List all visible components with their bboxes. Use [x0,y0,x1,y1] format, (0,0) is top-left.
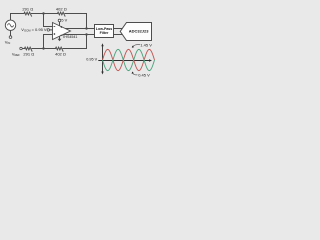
svg-text:ADC32J23: ADC32J23 [129,28,150,33]
low-pass filter block [95,25,114,38]
junction node B [85,27,87,29]
op-amp input plus mark [54,33,56,35]
wire amp output+ to LPF [64,28,94,30]
waveform output- green sine [103,49,155,70]
wire LPF to ADC bottom [114,34,123,36]
waveform horizontal axis [98,60,150,62]
resistor R3 291ohm bottom [25,47,32,51]
ADC U2 ADC32J23 pentagon [120,23,151,41]
resistor R2 402ohm top feedback [58,12,65,16]
wire R2 to output node B [65,14,87,29]
resistor R4 402ohm bottom feedback [56,47,63,51]
ground symbol [58,39,62,42]
vertical axis arrowhead top [101,43,103,46]
wire VOCM terminal to amp [50,29,53,31]
horizontal axis arrowhead [149,59,152,61]
wire R1 to node A [32,13,58,15]
wire node A down to amp input top [44,14,53,27]
wire node C up to amp input bottom [44,35,53,49]
waveform output+ red sine [103,49,155,70]
junction node C [42,47,44,49]
vertical axis arrowhead bottom [101,72,103,75]
op-amp output plus mark [61,26,63,28]
callout leader 0.45V [133,73,138,75]
wire top from source to R1 [11,14,25,20]
svg-text:291 Ω: 291 Ω [22,6,33,11]
svg-text:VIN: VIN [5,40,10,46]
wire VREF terminal to R3 [22,48,24,50]
junction node A [42,12,44,14]
svg-text:0.45 V: 0.45 V [138,73,150,78]
wire LPF to ADC top [114,28,123,30]
op-amp input minus mark [54,26,56,28]
svg-text:1.45 V: 1.45 V [140,43,152,48]
svg-text:0.95 V: 0.95 V [86,58,97,62]
waveform vertical axis [102,45,104,73]
op-amp U1 THS4541 triangle [53,23,71,40]
wire amp output- to LPF [63,34,94,36]
callout leader 1.45V [133,45,140,47]
svg-text:Filter: Filter [100,31,109,35]
op-amp output minus mark [61,34,63,36]
junction node D [85,33,87,35]
wire 5V supply to amp top [59,22,61,26]
wire R4 to output node D [63,35,87,49]
svg-text:402 Ω: 402 Ω [55,51,66,56]
svg-text:VOCM = 0.95 V: VOCM = 0.95 V [21,27,47,33]
resistor R1 291ohm top [24,12,31,16]
terminal VOCM [47,29,49,31]
terminal VIN [9,36,12,39]
terminal 5V supply [58,19,61,22]
svg-text:402 Ω: 402 Ω [56,6,67,11]
svg-text:THS4541: THS4541 [62,35,77,39]
svg-text:5 V: 5 V [61,17,67,22]
wire amp bottom to ground [59,36,61,39]
source VIN sine generator [5,20,15,30]
svg-text:291 Ω: 291 Ω [23,51,34,56]
wire source bottom to VIN terminal [10,31,12,36]
terminal VREF [20,47,22,49]
wire R3 to node C [32,48,56,50]
